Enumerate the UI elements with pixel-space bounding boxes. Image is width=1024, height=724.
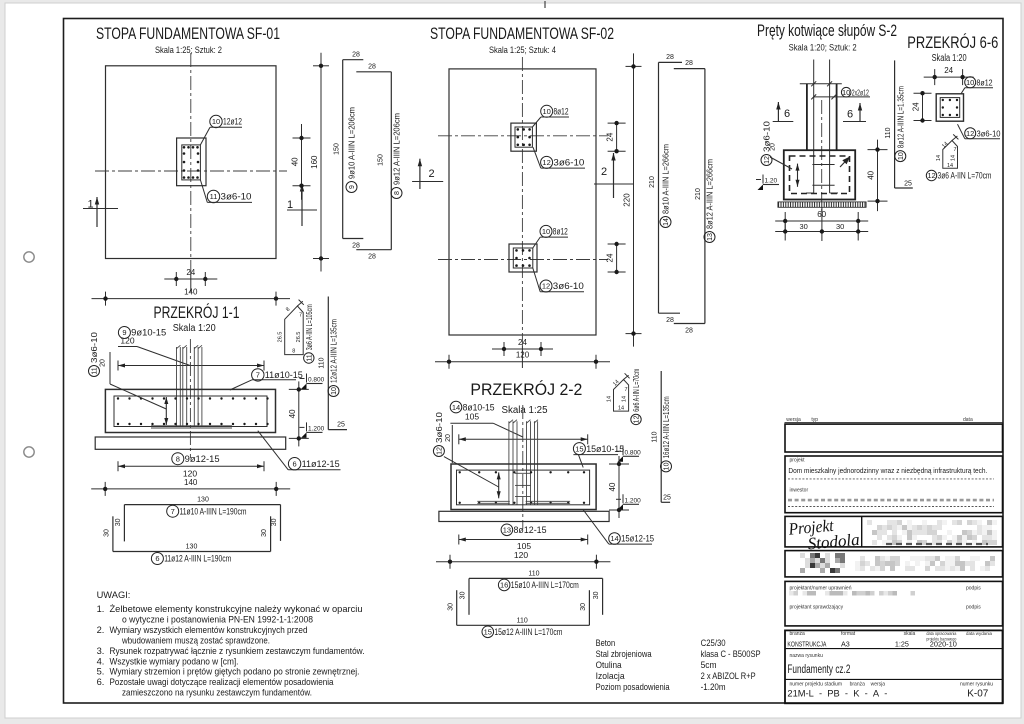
- svg-text:28: 28: [685, 328, 693, 335]
- svg-text:Wszystkie wymiary podano w [cm: Wszystkie wymiary podano w [cm].: [110, 657, 239, 667]
- svg-text:2x2ø12: 2x2ø12: [852, 88, 869, 97]
- section 6-6 bar schedule 10 shape: [894, 60, 896, 188]
- svg-text:11: 11: [306, 354, 313, 361]
- svg-text:40: 40: [288, 409, 297, 418]
- svg-text:podpis: podpis: [966, 586, 981, 592]
- svg-text:9ø10 A-IIIN L=206cm: 9ø10 A-IIIN L=206cm: [348, 107, 357, 179]
- svg-text:14: 14: [663, 218, 670, 226]
- section 2-2 bar 10 label: [661, 461, 672, 472]
- svg-text:7: 7: [256, 371, 260, 380]
- svg-text:1.200: 1.200: [625, 497, 642, 504]
- section 1-1 column bars: [176, 347, 178, 427]
- SF-02 section mark 2 left: [419, 159, 421, 189]
- svg-text:6ø6 A-IIN L=70cm: 6ø6 A-IIN L=70cm: [631, 369, 641, 412]
- svg-text:28: 28: [368, 254, 376, 261]
- section 1-1 bar schedule 10 shape: [327, 297, 329, 430]
- section 1-1 column bar top ticks: [176, 345, 180, 348]
- svg-text:3ø6-10: 3ø6-10: [977, 129, 1001, 139]
- section 2-2 dim 40 right: [618, 456, 620, 518]
- svg-text:25: 25: [337, 422, 345, 429]
- svg-text:210: 210: [695, 188, 702, 200]
- section 1-1 callout 9 9ø10-15: [118, 327, 130, 339]
- svg-text:Izolacja: Izolacja: [596, 671, 626, 682]
- svg-text:-1.20m: -1.20m: [701, 682, 726, 693]
- SF-01 vertical centerline: [190, 53, 192, 271]
- svg-text:24: 24: [944, 66, 953, 75]
- svg-text:26.5: 26.5: [296, 332, 302, 343]
- svg-text:16ø12 A-IIIN L=135cm: 16ø12 A-IIIN L=135cm: [662, 396, 671, 458]
- section 1-1 level 0.800: [300, 378, 305, 380]
- svg-text:30: 30: [115, 518, 122, 526]
- SF-01 callout 11 3ø6-10: [207, 190, 219, 202]
- svg-text:3ø6 A-IIN L=105cm: 3ø6 A-IIN L=105cm: [304, 304, 314, 350]
- svg-text:9ø12-15: 9ø12-15: [185, 454, 220, 464]
- S-2 footing outline: [784, 150, 855, 199]
- svg-text:21M-L - PB - K - A -: 21M-L - PB - K - A -: [787, 689, 887, 700]
- svg-text:Fundamenty cz.2: Fundamenty cz.2: [787, 664, 850, 676]
- svg-text:15ø10-15: 15ø10-15: [586, 444, 624, 454]
- svg-text:Żelbetowe elementy konstrukcyj: Żelbetowe elementy konstrukcyjne należy …: [110, 604, 363, 614]
- svg-text:26.5: 26.5: [278, 332, 284, 343]
- section 2-2 lean concrete: [439, 511, 609, 521]
- svg-text:Skala 1:25; Sztuk: 4: Skala 1:25; Sztuk: 4: [489, 45, 556, 56]
- svg-text:8ø12 A-IIIN L=266cm: 8ø12 A-IIIN L=266cm: [706, 159, 715, 229]
- section 6-6 dim 24 left: [922, 93, 924, 120]
- svg-text:3ø6-10: 3ø6-10: [553, 281, 584, 291]
- title block inwestor blurred line: [788, 499, 994, 502]
- section 1-1 dim 40 right: [298, 381, 300, 446]
- svg-text:0.800: 0.800: [625, 449, 642, 456]
- svg-text:K-07: K-07: [967, 688, 988, 700]
- svg-text:14: 14: [607, 396, 613, 402]
- SF-02 upper callout 10 leader: [532, 117, 541, 127]
- svg-text:0.800: 0.800: [308, 377, 325, 384]
- section 1-1 callout 7 leader: [230, 380, 252, 390]
- section 1-1 bent bar 7 shape: [124, 504, 280, 506]
- svg-text:3ø6-10: 3ø6-10: [553, 158, 584, 168]
- title block box D: [785, 551, 1003, 577]
- svg-text:1:25: 1:25: [895, 640, 909, 649]
- section 2-2 bent bar 15 shape: [457, 624, 590, 626]
- svg-text:30: 30: [800, 222, 808, 231]
- svg-text:10: 10: [842, 88, 850, 97]
- SF-02 dim 120 bottom: [435, 361, 610, 363]
- S-2 stirrup diagonal arrow: [840, 157, 850, 168]
- svg-text:15ø10 A-IIIN L=170cm: 15ø10 A-IIIN L=170cm: [511, 580, 579, 591]
- svg-text:o wytyczne i postanowienia PN-: o wytyczne i postanowienia PN-EN 1992-1-…: [122, 615, 313, 625]
- SF-01 dim 140 bottom: [92, 298, 291, 300]
- svg-text:6: 6: [847, 109, 853, 121]
- svg-text:8ø12: 8ø12: [553, 227, 568, 237]
- S-2 dim 40 right: [877, 140, 879, 212]
- svg-text:28: 28: [666, 317, 674, 324]
- svg-text:6.: 6.: [97, 677, 105, 687]
- section 1-1 level 1.200: [300, 426, 305, 428]
- SF-02 lower callout 12 3ø6-10: [540, 280, 552, 292]
- S-2 anchor bars: [813, 60, 815, 194]
- svg-text:12: 12: [437, 447, 444, 455]
- section 1-1 lean concrete: [95, 437, 286, 449]
- svg-text:6: 6: [784, 108, 790, 120]
- svg-text:2 x ABIZOL R+P: 2 x ABIZOL R+P: [701, 671, 756, 682]
- S-2 callout 10 leader: [834, 96, 870, 98]
- svg-text:format: format: [841, 631, 856, 637]
- svg-text:120: 120: [120, 336, 134, 346]
- S-2 anchor ties: [812, 164, 834, 166]
- section 2-2 callout 14 8ø10-15: [450, 401, 462, 413]
- svg-text:14: 14: [618, 406, 624, 412]
- S-2 lean concrete hatch: [778, 202, 866, 207]
- title block dotted line 1: [788, 478, 994, 480]
- svg-text:14: 14: [936, 155, 942, 161]
- section 2-2 level 1.200: [616, 498, 621, 500]
- SF-02 dim 24 lower right: [616, 244, 618, 272]
- SF-01 section mark 1 right: [301, 184, 303, 226]
- svg-text:Skala 1:25: Skala 1:25: [502, 405, 548, 416]
- section 1-1 column centerline: [189, 339, 191, 458]
- SF-01 section mark 1 left: [96, 197, 98, 227]
- svg-text:7: 7: [953, 147, 956, 153]
- svg-text:30: 30: [593, 591, 600, 599]
- S-2 center extension line: [821, 208, 823, 242]
- svg-text:30: 30: [460, 591, 467, 599]
- section 1-1 callout 8 9ø12-15: [172, 453, 184, 465]
- punch hole upper: [24, 252, 34, 262]
- SF-02 centerline extension below: [521, 346, 523, 368]
- svg-text:24: 24: [606, 132, 615, 141]
- svg-text:7: 7: [299, 313, 302, 319]
- section 2-2 stirrup 12 label: [631, 414, 641, 424]
- svg-text:11: 11: [210, 192, 218, 201]
- SF-02 bar 14 label: [660, 217, 671, 228]
- section 1-1 bar 7 label: [167, 505, 179, 517]
- title block box C blurred content: [867, 520, 872, 525]
- svg-text:1.: 1.: [97, 604, 105, 614]
- svg-text:28: 28: [368, 64, 376, 71]
- section 6-6 callout 10 leader: [961, 88, 965, 94]
- svg-text:branża: branża: [850, 682, 866, 688]
- svg-text:PRZEKRÓJ 6-6: PRZEKRÓJ 6-6: [907, 33, 998, 52]
- S-2 level 1.20: [756, 179, 761, 181]
- SF-01 dim 160 right: [320, 53, 322, 272]
- svg-text:7: 7: [624, 387, 627, 393]
- svg-text:Wymiary strzemion i prętów gię: Wymiary strzemion i prętów giętych podan…: [110, 667, 360, 677]
- section 1-1 callout 6 11ø12-15: [288, 458, 300, 470]
- S-2 dim 30-30 bottom: [775, 231, 868, 233]
- S-2 anchor bend top: [814, 96, 834, 98]
- SF-01 callout 10 12ø12: [210, 115, 222, 127]
- svg-text:8ø12: 8ø12: [554, 107, 569, 117]
- svg-text:podpis: podpis: [966, 605, 981, 611]
- S-2 column centerline: [821, 100, 823, 213]
- section 1-1 footing outline: [105, 389, 275, 432]
- svg-text:Poziom posadowienia: Poziom posadowienia: [596, 682, 671, 693]
- section 1-1 stirrup height arrow: [165, 397, 167, 425]
- SF-02 upper column rebar dots: [517, 128, 520, 131]
- svg-text:10: 10: [898, 152, 905, 160]
- section 2-2 column bars: [508, 421, 510, 505]
- S-2 stirrup dashed rect: [790, 156, 850, 194]
- SF-02 dim 24 upper right: [616, 123, 618, 151]
- svg-text:140: 140: [184, 288, 198, 297]
- title block projektant blurred: [789, 591, 794, 596]
- svg-text:15ø12 A-IIIN L=170cm: 15ø12 A-IIIN L=170cm: [494, 627, 562, 638]
- svg-text:A3: A3: [841, 640, 850, 649]
- section 1-1 spacing dim arrows 120 bottom: [118, 465, 264, 467]
- section 2-2 column ties: [515, 472, 531, 474]
- svg-text:1.200: 1.200: [308, 425, 325, 432]
- section 2-2 column bar top ticks: [509, 420, 513, 423]
- svg-text:KONSTRUKCJA: KONSTRUKCJA: [787, 642, 826, 649]
- svg-text:30: 30: [103, 529, 110, 537]
- svg-text:24: 24: [518, 338, 527, 347]
- SF-02 upper callout 10 8ø12: [541, 105, 553, 117]
- section 1-1 cage rebar dots top: [117, 397, 119, 399]
- svg-text:7: 7: [171, 507, 175, 516]
- section 2-2 spacing dim arrows bottom: [459, 539, 588, 541]
- section 2-2 stirrup detail 12 shape: [614, 380, 629, 412]
- svg-text:30: 30: [447, 603, 454, 611]
- svg-text:14: 14: [951, 155, 957, 161]
- svg-text:2: 2: [601, 166, 607, 178]
- svg-text:9ø12 A-IIIN L=206cm: 9ø12 A-IIIN L=206cm: [393, 113, 402, 185]
- svg-text:STOPA FUNDAMENTOWA SF-02: STOPA FUNDAMENTOWA SF-02: [430, 25, 614, 43]
- svg-text:12: 12: [634, 415, 641, 423]
- svg-text:8: 8: [394, 191, 401, 195]
- SF-01 bar 8 label: [391, 188, 402, 199]
- section 1-1 left stirrup label 11 3ø6-10: [89, 366, 100, 377]
- svg-text:skala: skala: [904, 631, 916, 637]
- svg-text:10: 10: [331, 387, 338, 395]
- SF-02 upper horizontal centerline: [438, 135, 608, 137]
- S-2 column outline: [806, 84, 808, 151]
- svg-text:30: 30: [836, 222, 844, 231]
- svg-text:110: 110: [319, 357, 326, 368]
- svg-text:2.: 2.: [97, 625, 105, 635]
- SF-02 lower callout 10 8ø12: [540, 225, 552, 237]
- title block box E: [785, 581, 1003, 626]
- SF-02 bar schedule 13 shape: [704, 69, 706, 324]
- svg-text:28: 28: [352, 243, 360, 250]
- svg-text:12: 12: [966, 129, 974, 138]
- svg-text:130: 130: [186, 544, 198, 551]
- section 2-2 bar 15 label: [482, 626, 494, 638]
- svg-text:Skala 1:20: Skala 1:20: [173, 323, 216, 334]
- svg-text:60: 60: [817, 210, 826, 219]
- section 2-2 cage rebar dots bottom: [459, 502, 461, 504]
- svg-text:8ø12 A-IIIN L=1.35cm: 8ø12 A-IIIN L=1.35cm: [896, 86, 905, 148]
- svg-text:5cm: 5cm: [701, 660, 717, 671]
- svg-text:12ø12: 12ø12: [223, 117, 242, 127]
- SF-02 lower column outline: [509, 244, 537, 272]
- S-2 section mark 6 right: [859, 103, 861, 122]
- svg-text:40: 40: [291, 157, 300, 166]
- SF-02 footing outline: [449, 69, 596, 335]
- SF-01 column rebar dots: [183, 146, 186, 149]
- svg-text:120: 120: [516, 351, 530, 360]
- S-2 column cut line: [800, 83, 842, 85]
- svg-text:24: 24: [912, 102, 921, 111]
- SF-01 callout 10 leader: [200, 127, 210, 145]
- svg-text:16: 16: [500, 581, 508, 590]
- section 1-1 left stirrup leader: [110, 384, 166, 409]
- svg-text:110: 110: [528, 570, 539, 577]
- title block box F: [785, 630, 1003, 703]
- svg-text:stadium: stadium: [825, 682, 843, 688]
- svg-text:11ø12 A-IIIN L=190cm: 11ø12 A-IIIN L=190cm: [164, 554, 231, 565]
- SF-01 dim 40 right: [301, 124, 303, 200]
- svg-text:13: 13: [707, 233, 714, 241]
- SF-01 bar schedule 9 shape: [342, 60, 344, 239]
- section 1-1 bent bar 6 shape: [113, 551, 271, 553]
- svg-text:8: 8: [292, 349, 295, 355]
- section 2-2 left stirrup label 12 3ø6-10: [433, 446, 444, 457]
- section 1-1 footing rebar cage: [114, 396, 267, 427]
- svg-text:8: 8: [176, 454, 180, 463]
- SF-01 dim 24 bottom: [164, 278, 217, 280]
- SF-02 dim 24 bottom: [492, 348, 553, 350]
- SF-01 horizontal centerline: [95, 170, 287, 172]
- title block box D blurred text: [860, 556, 865, 561]
- section 2-2 callout 15 15ø10-15: [573, 443, 585, 455]
- svg-text:5.: 5.: [97, 667, 105, 677]
- section 2-2 footing outline: [451, 464, 596, 510]
- svg-text:Skala 1:20: Skala 1:20: [932, 53, 967, 64]
- SF-01 callout 11 leader: [200, 180, 207, 203]
- svg-text:3ø6-10: 3ø6-10: [434, 412, 444, 443]
- S-2 left stirrup leader: [770, 157, 792, 169]
- svg-text:9: 9: [349, 185, 356, 189]
- SF-02 upper callout 12 3ø6-10: [541, 156, 553, 168]
- title block dotted line 2: [788, 506, 994, 508]
- svg-text:11ø10-15: 11ø10-15: [265, 370, 303, 380]
- svg-text:105: 105: [465, 412, 479, 422]
- svg-text:14: 14: [947, 163, 953, 169]
- svg-text:projektant sprawdzający: projektant sprawdzający: [790, 605, 844, 611]
- svg-text:Skala 1:20; Sztuk: 2: Skala 1:20; Sztuk: 2: [789, 43, 857, 54]
- svg-text:PRZEKRÓJ 1-1: PRZEKRÓJ 1-1: [154, 303, 240, 322]
- svg-text:3ø6-10: 3ø6-10: [221, 192, 252, 202]
- svg-text:210: 210: [649, 176, 656, 188]
- svg-text:11ø10 A-IIIN L=190cm: 11ø10 A-IIIN L=190cm: [180, 506, 247, 517]
- svg-text:data wydania: data wydania: [966, 631, 992, 637]
- svg-text:14: 14: [621, 396, 627, 402]
- svg-text:Otulina: Otulina: [596, 660, 623, 671]
- svg-text:STOPA FUNDAMENTOWA SF-01: STOPA FUNDAMENTOWA SF-01: [96, 25, 280, 43]
- svg-text:40: 40: [608, 482, 617, 491]
- svg-text:6: 6: [155, 554, 159, 563]
- S-2 dim 60 bottom: [775, 220, 868, 222]
- svg-text:Pozostałe uwagi dotyczące real: Pozostałe uwagi dotyczące realizacji ele…: [110, 677, 335, 687]
- svg-text:projekt: projekt: [790, 458, 806, 464]
- svg-text:11ø12-15: 11ø12-15: [302, 459, 340, 469]
- svg-text:110: 110: [885, 127, 892, 138]
- section 1-1 dim 140 bottom: [91, 488, 290, 490]
- title block box C logo: [785, 516, 1003, 547]
- title block box D blurred logo: [800, 553, 805, 558]
- SF-02 lower callout 12 leader: [533, 268, 540, 292]
- section 6-6 bar 10 label: [895, 151, 906, 162]
- svg-text:15: 15: [575, 444, 583, 453]
- svg-text:140: 140: [184, 478, 198, 487]
- svg-text:1: 1: [287, 199, 293, 211]
- SF-02 lower column stirrup: [513, 248, 533, 268]
- svg-text:projektant/numer uprawnień: projektant/numer uprawnień: [790, 586, 852, 592]
- svg-text:12ø12 A-IIIN L=135cm: 12ø12 A-IIIN L=135cm: [330, 319, 339, 383]
- svg-text:2: 2: [428, 168, 434, 180]
- svg-text:wersja: wersja: [871, 682, 886, 688]
- section 2-2 footing rebar cage: [457, 470, 590, 505]
- svg-text:zamieszczono na rysunku zestaw: zamieszczono na rysunku zestawczym funda…: [122, 688, 312, 698]
- section 6-6 column stirrup: [940, 98, 960, 118]
- section 6-6 stirrup detail 12 shape: [943, 141, 958, 169]
- svg-text:1.20: 1.20: [765, 178, 778, 185]
- svg-text:data opracowania: data opracowania: [926, 631, 956, 637]
- svg-text:12: 12: [927, 171, 935, 180]
- section 2-2 dim 120 bottom: [436, 561, 610, 563]
- section 2-2 bar 16 label: [498, 579, 510, 591]
- svg-text:inwestor: inwestor: [790, 488, 809, 494]
- svg-text:12: 12: [542, 282, 550, 291]
- svg-text:11: 11: [92, 367, 99, 374]
- section 1-1 stirrup 11 label: [304, 353, 314, 363]
- svg-text:150: 150: [378, 154, 385, 166]
- svg-text:3.: 3.: [97, 646, 105, 656]
- svg-text:13: 13: [503, 526, 511, 535]
- section 1-1 callout 9 leader: [118, 346, 137, 348]
- section 1-1 spacing dim arrows 120: [118, 365, 264, 367]
- SF-02 section mark 2 right: [613, 153, 615, 198]
- svg-text:120: 120: [514, 550, 528, 560]
- svg-text:20: 20: [445, 434, 452, 442]
- section 2-2 callout 14 leader: [583, 510, 609, 545]
- section 2-2 callout 15 leader: [578, 455, 583, 468]
- svg-text:8ø12-15: 8ø12-15: [514, 525, 547, 535]
- svg-text:numer projektu: numer projektu: [790, 682, 824, 688]
- svg-text:9ø10-15: 9ø10-15: [131, 328, 166, 338]
- section 2-2 spacing dim arrows: [459, 438, 588, 440]
- svg-text:8ø10 A-IIIN L=266cm: 8ø10 A-IIIN L=266cm: [662, 144, 671, 214]
- svg-text:1: 1: [87, 199, 93, 211]
- S-2 section mark 6 left: [777, 102, 779, 122]
- SF-01 column stirrup: [182, 145, 201, 180]
- svg-text:14: 14: [452, 403, 460, 412]
- SF-02 bar schedule 14 shape: [658, 62, 660, 313]
- svg-text:Skala 1:25; Sztuk: 2: Skala 1:25; Sztuk: 2: [155, 45, 222, 56]
- svg-text:15: 15: [484, 628, 492, 637]
- svg-text:24: 24: [606, 253, 615, 262]
- svg-text:110: 110: [517, 617, 528, 624]
- svg-text:30: 30: [261, 529, 268, 537]
- section 2-2 callout 13 8ø12-15: [501, 524, 513, 536]
- SF-02 lower horizontal centerline: [438, 259, 608, 261]
- section 6-6 column outline: [936, 94, 963, 121]
- section 2-2 column centerline: [522, 405, 524, 528]
- section 6-6 callout 10 8ø12: [965, 77, 976, 88]
- section 6-6 dim 24 top: [924, 76, 974, 78]
- svg-text:28: 28: [666, 54, 674, 61]
- SF-02 lower callout 10 leader: [533, 237, 540, 248]
- svg-text:8ø12: 8ø12: [977, 78, 993, 88]
- svg-text:40: 40: [867, 170, 876, 179]
- svg-text:28: 28: [352, 52, 360, 59]
- svg-text:2020-10: 2020-10: [930, 640, 957, 649]
- SF-02 upper column stirrup: [515, 127, 532, 147]
- svg-text:Beton: Beton: [596, 638, 616, 649]
- svg-text:160: 160: [310, 155, 319, 169]
- section 2-2 level 0.800: [616, 450, 621, 452]
- section 2-2 bent bar 16 shape: [469, 577, 603, 579]
